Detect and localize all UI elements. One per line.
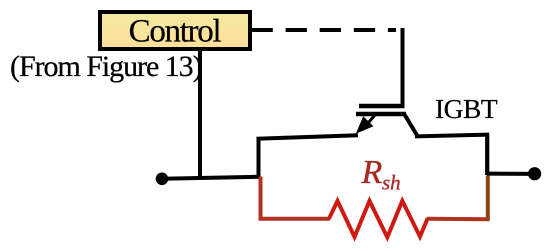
wire: IGBT gate lead vertical xyxy=(401,28,405,108)
wire: left horizontal from node A to shunt branch junction xyxy=(162,177,259,179)
svg-text:sh: sh xyxy=(382,171,401,195)
wire: right horizontal to node B xyxy=(487,172,533,176)
wire: dashed gate control line from Control box to IGBT gate lead xyxy=(252,28,397,32)
transistor Q1 IGBT symbol xyxy=(356,106,418,136)
wire: red left vertical of shunt branch xyxy=(259,177,263,219)
node B (right terminal dot) xyxy=(528,167,541,180)
svg-text:R: R xyxy=(361,154,383,191)
wire: vertical from Control box bottom to left node xyxy=(198,51,202,179)
svg-text:(From Figure 13): (From Figure 13) xyxy=(10,50,202,83)
wire: brown right vertical of shunt branch xyxy=(486,176,490,222)
emitter arrowhead xyxy=(356,116,374,134)
wire: emitter horizontal wire to IGBT xyxy=(257,135,359,139)
emitter diagonal xyxy=(362,115,375,130)
label: R_sh value xyxy=(361,154,401,195)
node A (left terminal dot) xyxy=(156,173,169,186)
gate bar xyxy=(359,104,405,109)
wire: red bottom right segment from resistor xyxy=(427,217,490,222)
body bar xyxy=(356,112,406,117)
wire: black vertical up from left junction to emitter wire xyxy=(257,137,261,179)
wire: black right vertical down to right node xyxy=(485,133,489,175)
wire: collector horizontal wire to right vertical xyxy=(415,135,489,137)
resistor R_sh zigzag xyxy=(329,201,428,237)
svg-text:Control: Control xyxy=(129,13,222,49)
wire: red bottom left segment to resistor xyxy=(259,217,331,221)
control block U1 (Control box) xyxy=(100,12,250,49)
svg-text:IGBT: IGBT xyxy=(435,93,498,124)
collector diagonal xyxy=(405,115,418,137)
